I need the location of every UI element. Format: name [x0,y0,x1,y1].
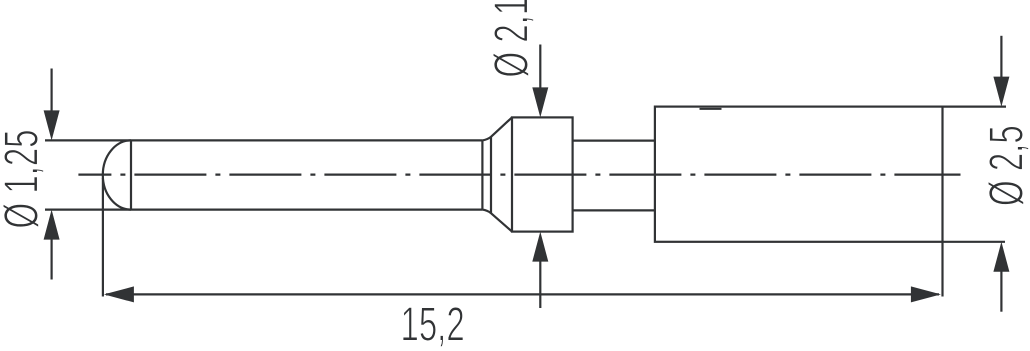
collar rectangle [512,117,573,231]
arrowhead diameter 1,25 bottom [44,210,60,240]
extension line right edge down to dimension line [941,242,943,297]
centerline [78,174,960,176]
neck top line [573,140,655,142]
svg-text:Ø 2,1: Ø 2,1 [483,0,538,78]
cone bottom outline [482,210,512,232]
pin shaft top line with left extension [45,139,482,141]
leader line diameter 2,5 top [1000,36,1002,78]
leader line diameter 1,25 bottom [50,238,52,280]
extension line top right [943,105,1007,107]
arrowhead diameter 2,1 top [532,87,548,117]
extension line bottom right [943,241,1006,243]
body cylinder rectangle [655,107,943,242]
pin shaft bottom line with left extension [45,209,482,211]
leader line diameter 2,5 bottom [1000,270,1002,312]
svg-text:Ø 1,25: Ø 1,25 [0,129,48,228]
arrowhead diameter 1,25 top [44,110,60,140]
arrowhead diameter 2,5 bottom [993,242,1009,272]
pin tip tangent edge [130,140,132,209]
cone edge line 2 [490,136,492,214]
cone edge line 1 [481,140,483,209]
extension line left tip down to dimension line [102,178,104,297]
leader line diameter 2,1 top [539,45,541,90]
arrowhead 15,2 left [104,286,134,302]
arrowhead 15,2 right [911,286,941,302]
arrowhead diameter 2,5 top [993,77,1009,107]
cone top outline [482,117,512,140]
dimension line 15,2 [106,293,939,295]
svg-text:Ø 2,5: Ø 2,5 [978,125,1030,206]
body cylinder top seam mark [700,108,722,110]
arrowhead diameter 2,1 bottom [532,232,548,262]
neck bottom line [573,209,655,211]
pin tip arc [103,140,131,209]
svg-text:15,2: 15,2 [401,296,465,351]
leader line diameter 2,1 bottom [539,260,541,308]
leader line diameter 1,25 top [50,69,52,113]
